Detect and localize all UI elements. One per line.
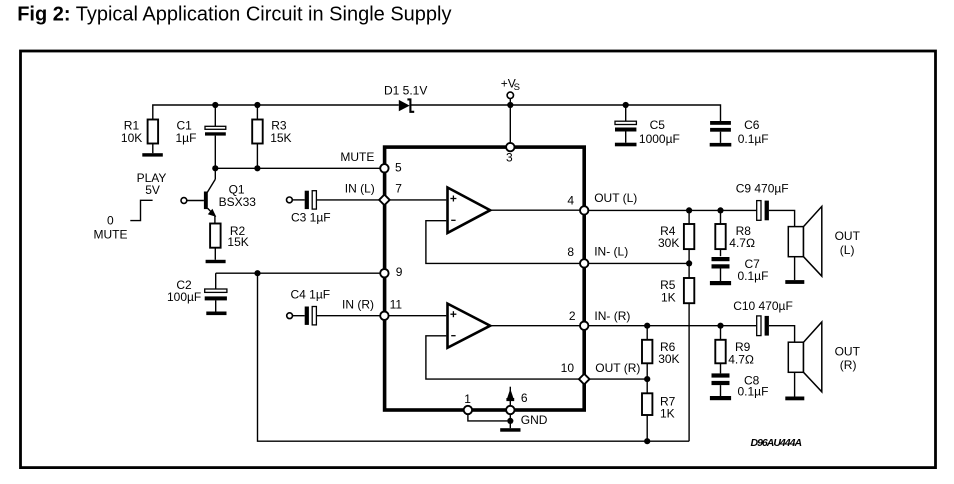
ground C6 bbox=[710, 143, 732, 147]
ground R2 bbox=[206, 260, 226, 263]
ground speaker R bbox=[785, 397, 804, 401]
svg-text:5V: 5V bbox=[145, 183, 160, 197]
terminal mute input (Q1 base) bbox=[181, 198, 187, 204]
node junction +Vs-rail bbox=[507, 102, 513, 108]
svg-text:OUT (R): OUT (R) bbox=[595, 361, 640, 375]
svg-text:C10 470µF: C10 470µF bbox=[733, 299, 793, 313]
capacitor C10 bbox=[733, 299, 794, 342]
svg-text:6: 6 bbox=[521, 391, 528, 405]
speaker OUT (R) bbox=[788, 322, 860, 397]
resistor R7 bbox=[642, 379, 676, 441]
svg-text:C6: C6 bbox=[744, 118, 760, 132]
node junction C5-rail bbox=[623, 102, 629, 108]
node junction R3-rail bbox=[254, 102, 260, 108]
svg-text:15K: 15K bbox=[227, 235, 248, 249]
svg-text:GND: GND bbox=[521, 413, 548, 427]
svg-text:IN (L): IN (L) bbox=[345, 182, 375, 196]
svg-text:15K: 15K bbox=[270, 131, 291, 145]
svg-text:BSX33: BSX33 bbox=[219, 195, 257, 209]
svg-text:0.1µF: 0.1µF bbox=[738, 132, 769, 146]
node junction R4/R5 bbox=[686, 260, 692, 266]
svg-text:C5: C5 bbox=[650, 118, 666, 132]
resistor R5 bbox=[660, 263, 694, 441]
svg-text:4.7Ω: 4.7Ω bbox=[729, 236, 755, 250]
node junction R3 / mute wire bbox=[254, 165, 260, 171]
capacitor C2 bbox=[167, 273, 227, 311]
pin 6 bbox=[506, 406, 514, 414]
svg-text:IN (R): IN (R) bbox=[342, 297, 374, 311]
pin 5 bbox=[380, 164, 388, 172]
resistor R8 bbox=[715, 210, 755, 256]
resistor R6 bbox=[642, 326, 680, 379]
capacitor C1 bbox=[176, 105, 226, 168]
IC U1 amplifier box bbox=[385, 147, 585, 410]
pin 3 bbox=[506, 143, 514, 151]
pin 7 bbox=[379, 195, 390, 206]
svg-text:10K: 10K bbox=[121, 131, 142, 145]
capacitor C9 bbox=[736, 181, 795, 226]
node junction R9 top bbox=[717, 323, 723, 329]
svg-text:0: 0 bbox=[107, 214, 114, 228]
capacitor C6 bbox=[710, 118, 769, 146]
capacitor C5 bbox=[615, 105, 680, 146]
resistor R3 bbox=[252, 105, 291, 168]
svg-text:IN- (R): IN- (R) bbox=[594, 309, 630, 323]
wire IN- (L) net bbox=[588, 262, 689, 264]
svg-text:100µF: 100µF bbox=[167, 290, 201, 304]
capacitor C7 bbox=[712, 257, 769, 283]
svg-text:(R): (R) bbox=[840, 358, 857, 372]
wire MUTE net to pin 5 bbox=[215, 167, 380, 169]
speaker OUT (L) bbox=[788, 206, 860, 280]
wire IN- (R) net bbox=[588, 325, 756, 327]
ground C8 bbox=[710, 396, 731, 400]
resistor R4 bbox=[658, 210, 694, 263]
svg-text:2: 2 bbox=[569, 309, 576, 323]
svg-text:1000µF: 1000µF bbox=[639, 132, 680, 146]
ground R1 bbox=[142, 153, 163, 156]
op-amp U1A (left channel) bbox=[390, 188, 580, 264]
svg-text:D1 5.1V: D1 5.1V bbox=[384, 84, 427, 98]
svg-text:4: 4 bbox=[567, 193, 574, 207]
svg-text:C3 1µF: C3 1µF bbox=[291, 210, 331, 224]
svg-text:1µF: 1µF bbox=[176, 131, 197, 145]
svg-text:3: 3 bbox=[506, 151, 513, 165]
svg-text:MUTE: MUTE bbox=[340, 150, 374, 164]
svg-text:OUT: OUT bbox=[835, 344, 861, 358]
svg-text:Fig 2: Typical Application Cir: Fig 2: Typical Application Circuit in Si… bbox=[17, 4, 451, 26]
wire C2 to pin 9 bbox=[216, 272, 381, 274]
capacitor C4 bbox=[291, 288, 381, 325]
ground C7 bbox=[710, 281, 731, 285]
svg-text:1K: 1K bbox=[661, 291, 676, 305]
svg-text:S: S bbox=[514, 82, 520, 93]
svg-text:10: 10 bbox=[561, 361, 575, 375]
svg-text:1K: 1K bbox=[660, 407, 675, 421]
wire supply rail left (R1 to D1 anode) bbox=[153, 105, 399, 120]
svg-text:30K: 30K bbox=[658, 236, 679, 250]
transistor Q1 BSX33 bbox=[187, 168, 257, 223]
resistor R2 bbox=[210, 224, 249, 260]
svg-text:MUTE: MUTE bbox=[94, 227, 128, 241]
node junction R6/R7 bbox=[644, 376, 650, 382]
terminal IN (R) input bbox=[287, 313, 293, 319]
node junction R7 bottom bbox=[644, 438, 650, 444]
pin 1 bbox=[464, 406, 472, 414]
svg-text:(L): (L) bbox=[840, 243, 855, 257]
svg-text:C4 1µF: C4 1µF bbox=[291, 288, 331, 302]
svg-text:8: 8 bbox=[567, 245, 574, 259]
pin 4 bbox=[580, 206, 588, 214]
svg-text:11: 11 bbox=[390, 297, 403, 311]
svg-text:IN- (L): IN- (L) bbox=[594, 245, 628, 259]
pin 2 bbox=[580, 322, 588, 330]
mute control waveform (PLAY/MUTE) bbox=[94, 171, 167, 242]
wire OUT (L) net bbox=[588, 209, 757, 211]
pin 9 bbox=[380, 269, 388, 277]
node junction R8 top bbox=[717, 207, 723, 213]
svg-text:1: 1 bbox=[464, 392, 471, 406]
terminal IN (L) input bbox=[287, 197, 293, 203]
pin 10 bbox=[579, 374, 590, 385]
diode D1 (zener 5.1V) bbox=[384, 84, 427, 112]
capacitor C8 bbox=[712, 373, 769, 398]
wire SVR column down to bottom rail bbox=[258, 273, 690, 441]
resistor R1 bbox=[121, 119, 158, 154]
svg-text:D96AU444A: D96AU444A bbox=[751, 437, 802, 449]
terminal +Vs bbox=[501, 77, 520, 99]
svg-text:C9 470µF: C9 470µF bbox=[736, 181, 789, 195]
capacitor C3 bbox=[291, 191, 379, 225]
svg-text:9: 9 bbox=[396, 265, 403, 279]
svg-text:4.7Ω: 4.7Ω bbox=[728, 352, 754, 366]
ground C5 bbox=[615, 143, 637, 147]
svg-text:0.1µF: 0.1µF bbox=[738, 384, 769, 398]
ground GND pins 1 and 6 bbox=[468, 387, 548, 432]
node junction Q1 collector / C1 bbox=[212, 165, 218, 171]
node junction SVR column bbox=[254, 270, 260, 276]
op-amp U1B (right channel) bbox=[389, 304, 580, 380]
svg-text:7: 7 bbox=[395, 182, 402, 196]
resistor R9 bbox=[715, 326, 754, 374]
ground speaker L bbox=[785, 280, 804, 284]
svg-text:5: 5 bbox=[395, 160, 402, 174]
pin 11 bbox=[380, 312, 388, 320]
wire OUT (R) net bbox=[590, 378, 647, 380]
svg-text:OUT (L): OUT (L) bbox=[594, 191, 637, 205]
wire supply rail right (D1 cathode to C6) bbox=[411, 105, 721, 121]
node junction R4 top bbox=[686, 207, 692, 213]
svg-text:30K: 30K bbox=[658, 352, 679, 366]
node junction R6 top bbox=[644, 323, 650, 329]
node junction C1-rail bbox=[212, 102, 218, 108]
ground C2 bbox=[206, 312, 226, 316]
svg-text:0.1µF: 0.1µF bbox=[738, 269, 769, 283]
svg-text:OUT: OUT bbox=[835, 229, 861, 243]
wire +Vs to pin 3 bbox=[509, 99, 511, 143]
pin 8 bbox=[580, 259, 588, 267]
